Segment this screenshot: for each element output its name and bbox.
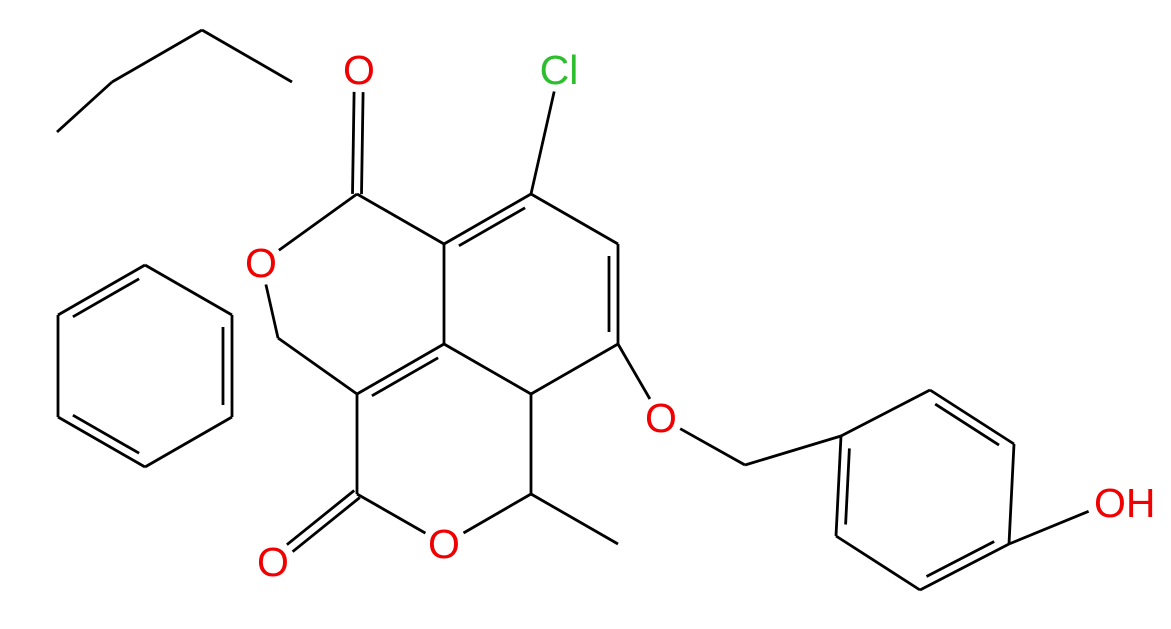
- svg-text:O: O: [428, 521, 460, 567]
- svg-text:O: O: [257, 539, 289, 585]
- svg-text:OH: OH: [1094, 480, 1156, 526]
- svg-text:O: O: [645, 395, 677, 441]
- svg-text:Cl: Cl: [540, 47, 579, 93]
- svg-text:O: O: [343, 47, 375, 93]
- svg-text:O: O: [245, 240, 277, 286]
